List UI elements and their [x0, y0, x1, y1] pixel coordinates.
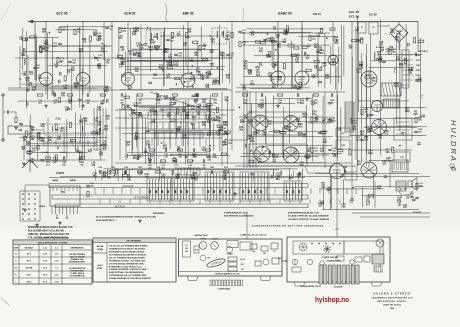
svg-text:100p: 100p [368, 153, 374, 155]
svg-text:25u: 25u [224, 100, 229, 102]
component row y95 cr - resistor R26 [277, 94, 282, 96]
svg-text:1M: 1M [55, 67, 58, 69]
svg-text:25u: 25u [312, 114, 317, 116]
wire right bus drop [417, 22, 419, 51]
svg-text:25u: 25u [126, 144, 131, 146]
speaker transformer hatched [396, 181, 406, 191]
svg-text:330: 330 [226, 78, 231, 80]
component row - resistor R7 [100, 94, 105, 96]
capacitor C3 [93, 33, 97, 35]
component scatter region 104 [122, 93, 230, 161]
svg-text:100p: 100p [249, 84, 255, 86]
table 2 HF trimming [93, 238, 176, 282]
svg-text:1,1V: 1,1V [54, 254, 59, 256]
svg-text:C75: C75 [397, 34, 400, 36]
resistor R3 [74, 29, 76, 34]
chassis A right column rect 3 [228, 267, 237, 271]
wire y150 right [352, 149, 412, 151]
svg-text:230V: 230V [416, 75, 421, 77]
svg-text:LIK-L27 TRIMMES MED SKALAVISER: LIK-L27 TRIMMES MED SKALAVISER [109, 256, 145, 259]
svg-text:68k: 68k [247, 139, 252, 141]
svg-text:AVSTEMMINGSSKIVE NR. 3013: AVSTEMMINGSSKIVE NR. 3013 [288, 211, 320, 214]
chassis A trimmer KOLM [211, 242, 219, 250]
wire left drop x24 [23, 135, 25, 160]
svg-text:25u: 25u [194, 55, 199, 57]
svg-text:110V: 110V [416, 55, 421, 57]
svg-text:1n5: 1n5 [107, 174, 112, 176]
component row y160 - resistor R20 [160, 160, 165, 162]
wire vertical x120 [119, 108, 121, 160]
svg-text:10n: 10n [377, 188, 382, 190]
svg-text:400 MA: 400 MA [97, 245, 104, 248]
svg-text:1n5: 1n5 [305, 158, 310, 160]
switch contact row B [148, 122, 210, 129]
long wire AGC y88 [8, 87, 112, 89]
svg-text:1M: 1M [121, 50, 124, 52]
svg-text:1M: 1M [217, 135, 220, 137]
svg-text:TRIMM: TRIMM [97, 249, 104, 251]
chassis A right column rect 1 [228, 257, 237, 261]
wire x352 to band [351, 160, 353, 204]
svg-text:10n: 10n [27, 153, 32, 155]
scan mark bottom-left [1, 298, 10, 306]
svg-text:OMR: OMR [14, 248, 19, 250]
svg-text:AVSLASRETNING ----: AVSLASRETNING ---- [96, 219, 117, 222]
svg-text:C47: C47 [263, 252, 266, 255]
svg-text:1M: 1M [403, 207, 406, 209]
svg-text:100p: 100p [225, 39, 231, 41]
component row y150 - resistor R18 [177, 149, 182, 151]
capacitor C12 [166, 38, 170, 40]
switch contact cluster C [205, 172, 234, 201]
arrows below switch [56, 214, 58, 219]
resistor R30 [389, 49, 391, 54]
chassis2 foot right [371, 282, 382, 286]
wire x352 long drop [351, 22, 353, 161]
resistor R1 [15, 117, 17, 122]
capacitor C23 [218, 128, 222, 130]
svg-text:4n7: 4n7 [28, 85, 33, 88]
transformer winding comb x345 [345, 102, 354, 132]
small box right mid [394, 152, 410, 162]
svg-text:1n5: 1n5 [259, 107, 264, 109]
component scatter region 108 [103, 169, 301, 179]
fuse box S1 [358, 22, 366, 33]
svg-text:PA MERKET 1600kHz. TILFORES 16: PA MERKET 1600kHz. TILFORES 1600 [109, 259, 146, 262]
ground G2 [27, 88, 29, 90]
component - capacitor C16 [156, 93, 158, 97]
chassis2 left rect [292, 267, 301, 272]
svg-text:BÅND: BÅND [115, 203, 126, 208]
chassis A scattered rect a [250, 244, 257, 249]
star tube V6 [372, 120, 387, 135]
wire ladder bottom bend [94, 149, 106, 151]
svg-text:MERKNAD:: MERKNAD: [153, 212, 165, 215]
wire x325 drop [324, 92, 326, 168]
wire bridge top [398, 22, 400, 25]
wire B+ bus top [28, 21, 418, 23]
small rect component [288, 44, 294, 47]
label scatter region 107 [348, 27, 418, 166]
component row y150 - capacitor C18 [164, 148, 166, 152]
wire long y176 middle [60, 176, 430, 178]
svg-text:2x5AT: 2x5AT [357, 38, 364, 41]
chassis2 top-right inner box [344, 241, 383, 254]
label scatter region 105 [242, 31, 339, 92]
chassis A top rect 1 [227, 241, 238, 248]
tube V4a EABC80 [271, 71, 285, 85]
band switch bus GRAM [49, 184, 308, 189]
resistor R28 [311, 117, 313, 122]
svg-text:4n7: 4n7 [305, 57, 310, 60]
label scatter region 102 [21, 116, 110, 167]
wire y163 horizontal [235, 165, 345, 167]
switch contact row A [148, 112, 210, 119]
svg-text:1M: 1M [171, 174, 174, 176]
svg-text:1n5: 1n5 [99, 155, 104, 157]
fuse box S2 [369, 22, 378, 34]
component right col - capacitor C36 [414, 130, 418, 132]
small box right of decoder 2 [336, 140, 350, 149]
chassis A small box FYD [194, 246, 199, 253]
tube V1b triode [77, 73, 90, 86]
svg-text:1M: 1M [146, 144, 149, 146]
svg-text:5p6: 5p6 [132, 34, 137, 36]
svg-text:OMRADE I MARKERTE GJELDER FOR: OMRADE I MARKERTE GJELDER FOR [28, 233, 70, 236]
svg-text:LIK-L26,L26,L26 TRIMMES MED SI: LIK-L26,L26,L26 TRIMMES MED SIGNAL- [109, 245, 149, 248]
svg-text:1M: 1M [406, 197, 409, 199]
wire EM84 drop [332, 22, 334, 56]
ground rotary switch [36, 223, 38, 225]
trimmer row in gang [47, 140, 49, 145]
svg-text:1,5V: 1,5V [43, 261, 48, 263]
svg-text:1n5: 1n5 [197, 75, 202, 77]
svg-text:47k: 47k [26, 143, 31, 146]
decoder box upper [248, 112, 306, 135]
band area tick row between bands 2-3 [99, 200, 101, 204]
svg-text:GRAM: GRAM [123, 184, 134, 188]
ground G9 [59, 221, 61, 223]
chassis2 mid-right circle [350, 260, 354, 264]
chassis2 small circle A [320, 261, 324, 265]
svg-text:SIGNALGENERATOR TILKOBLET DIRE: SIGNALGENERATOR TILKOBLET DIREKTE. [109, 277, 152, 280]
svg-text:245V: 245V [416, 79, 421, 82]
wire left section vertical x20 [19, 46, 21, 88]
svg-text:1M: 1M [193, 156, 196, 158]
svg-text:TEGN. NR. 5070-B: TEGN. NR. 5070-B [383, 304, 401, 306]
svg-text:25u: 25u [277, 47, 282, 49]
svg-text:1M: 1M [297, 102, 300, 104]
EM84 indicator tube [328, 55, 338, 65]
svg-text:KOBL.: KOBL. [97, 268, 103, 270]
svg-text:4 SKALALAMPER 0,3A 6V: 4 SKALALAMPER 0,3A 6V [300, 285, 322, 288]
svg-text:2x0000/00: 2x0000/00 [334, 287, 343, 289]
chassis2 plus marks [311, 243, 313, 245]
component row y95 cr - capacitor C28 [260, 93, 262, 97]
svg-text:220: 220 [196, 113, 201, 115]
svg-text:SKALA-BETEGNELSE / LYSNING: SKALA-BETEGNELSE / LYSNING [38, 242, 68, 245]
svg-text:OSRAM: OSRAM [226, 253, 233, 256]
svg-text:5p6: 5p6 [256, 69, 261, 71]
IF transformer T2 [212, 28, 227, 44]
AM input box [8, 126, 32, 134]
svg-text:5p6: 5p6 [138, 116, 143, 118]
svg-text:STEREO: STEREO [134, 196, 150, 200]
wire band horizontal y177 [49, 177, 305, 179]
ground G5 [23, 162, 25, 164]
chassis A top rect 2 [240, 242, 252, 250]
wire V4b anode [301, 22, 303, 71]
svg-text:SKALA-BELYSNINGSLAMPER: SKALA-BELYSNINGSLAMPER [37, 237, 69, 240]
band area tick row between bands 1-2 [94, 188, 96, 194]
svg-text:230 2: 230 2 [26, 282, 32, 284]
svg-text:ETTER MED C2 VED 600kHz OG L-: ETTER MED C2 VED 600kHz OG L- [109, 266, 142, 268]
capacitor C13 [174, 53, 178, 55]
svg-text:100p: 100p [228, 142, 233, 144]
label scatter region 108 [92, 171, 301, 182]
tuning gang dashed box [44, 138, 96, 146]
output stage box list [394, 118, 412, 140]
wire grid row [40, 45, 110, 47]
svg-text:10n: 10n [207, 159, 212, 161]
component scatter region 103 [117, 27, 223, 88]
chassis2 small circle B [307, 259, 312, 264]
svg-text:BOLGEOMRADER I STILLING MB.: BOLGEOMRADER I STILLING MB. [28, 230, 65, 233]
scan artifact cross right edge [420, 93, 423, 99]
svg-text:1M: 1M [119, 66, 122, 68]
wire vertical x138 [137, 115, 139, 160]
svg-text:FJERN: FJERN [56, 172, 64, 175]
svg-text:10n: 10n [356, 72, 361, 74]
component - resistor R14 [137, 94, 142, 96]
power transformer primary (hatched) [381, 83, 401, 96]
component - capacitor C17 [194, 93, 196, 97]
svg-text:5p6: 5p6 [138, 174, 143, 176]
svg-text:25u: 25u [378, 138, 383, 140]
small box right of decoder [336, 128, 350, 137]
wire x244 long drop [243, 33, 245, 168]
wire mesh region 101 [18, 25, 110, 111]
component row y158 - resistor R9 [79, 157, 84, 159]
component above bands - capacitor C39 [210, 170, 212, 174]
svg-text:1M: 1M [32, 151, 35, 153]
wire between star tubes [268, 122, 283, 124]
svg-text:1M: 1M [60, 131, 63, 133]
svg-text:1M: 1M [271, 41, 274, 43]
coil L4 row [42, 152, 44, 153]
chassis2 right tube rear [376, 239, 384, 247]
wire V4a anode [277, 22, 279, 71]
wire drop to chassis A [246, 212, 248, 239]
star tube V5c [254, 146, 270, 162]
svg-text:1n5: 1n5 [221, 55, 226, 57]
capacitor C14 [226, 53, 230, 55]
svg-text:TANDBERGS RADIOFABRIKK A/S: TANDBERGS RADIOFABRIKK A/S [371, 296, 413, 299]
svg-text:10n: 10n [202, 102, 207, 104]
component row y160 - capacitor C21 [174, 159, 176, 163]
chassis2 right column wire [379, 247, 381, 254]
svg-text:hylshop.no: hylshop.no [315, 297, 349, 304]
svg-text:68k: 68k [21, 55, 26, 57]
svg-text:FM: FM [56, 117, 61, 121]
ground G8 [277, 104, 279, 106]
svg-text:KOLM: KOLM [212, 239, 218, 241]
FM tuner dashed box L2 L3 [44, 124, 96, 135]
resistor R22 [225, 139, 227, 144]
svg-text:1n5: 1n5 [384, 134, 389, 136]
svg-text:2.3: 2.3 [55, 248, 58, 250]
IF transformer T1 [146, 30, 161, 46]
wire x356 long drop [355, 30, 357, 160]
chassis A foot right [260, 276, 271, 281]
svg-text:56k: 56k [268, 76, 273, 78]
switch contact cluster E [284, 181, 302, 201]
left switch assembly box [50, 186, 80, 206]
chassis A right column rect 2 [228, 262, 237, 266]
ground G12 [234, 192, 236, 194]
heater coil winding [374, 52, 375, 54]
chassis2 mid-right rect a [355, 257, 362, 262]
svg-text:1n5: 1n5 [40, 126, 45, 128]
chassis2 right transformer rear [372, 254, 384, 264]
svg-text:10n: 10n [408, 73, 413, 75]
wire x104 drop [103, 22, 105, 61]
component above bands right - capacitor C40 [343, 170, 345, 174]
svg-text:1,2V: 1,2V [54, 261, 59, 263]
wire down-left x25 [24, 185, 26, 206]
svg-text:ALLE KONDENSATORER ER TEGNET I: ALLE KONDENSATORER ER TEGNET I FRASLATT-… [96, 216, 157, 219]
svg-text:4 SKALALAMPER 6,3V 0,3A: 4 SKALALAMPER 6,3V 0,3A [214, 272, 240, 275]
bus arrowhead left [28, 20, 33, 23]
label scatter region 103 [118, 28, 230, 91]
svg-text:25u: 25u [371, 80, 376, 82]
capacitor C10 [98, 128, 100, 132]
component scatter region 101 [19, 32, 108, 110]
component row y150 - resistor R17 [149, 149, 154, 151]
svg-text:68k: 68k [262, 134, 267, 136]
wire x250 long drop [249, 92, 251, 168]
svg-text:5p6: 5p6 [325, 77, 330, 79]
svg-text:100p: 100p [386, 160, 392, 162]
switch contact cluster D [240, 172, 269, 201]
wire horizontal y118 [115, 117, 148, 119]
svg-text:4n7: 4n7 [88, 151, 93, 154]
chassis A connector comb [210, 280, 243, 286]
svg-text:5p6: 5p6 [175, 65, 180, 67]
component row - resistor R6 [67, 94, 72, 96]
svg-text:C2-7: C2-7 [241, 264, 245, 266]
resistor R10 [119, 27, 121, 32]
svg-text:AKKAR 7600: AKKAR 7600 [194, 234, 208, 237]
svg-text:1n5: 1n5 [207, 135, 212, 137]
svg-text:ANTENNE TIL ANT.KONTAKT. AVLES: ANTENNE TIL ANT.KONTAKT. AVLES [109, 251, 145, 254]
transformer secondary hatch [383, 99, 385, 108]
component scatter region 106 [239, 97, 343, 162]
chassis A scattered rect c [271, 243, 278, 249]
component row above bands - capacitor C38 [124, 170, 126, 174]
long diagonal wire [150, 92, 215, 113]
chassis 2 outline [287, 237, 390, 282]
svg-text:1M: 1M [365, 111, 368, 113]
ground G10 [24, 208, 26, 210]
svg-text:HF TRIMMING: HF TRIMMING [127, 241, 142, 243]
svg-text:5p6: 5p6 [413, 114, 418, 116]
component scatter region 109 [322, 175, 416, 201]
capacitor C25 [238, 30, 242, 32]
switch contact cluster B [172, 178, 194, 201]
component col below OT - capacitor C45 [415, 196, 419, 198]
component - resistor R16 [212, 94, 217, 96]
chassis A scattered rect e [272, 258, 279, 264]
wire V1b anode [82, 22, 84, 73]
svg-text:M: M [57, 146, 60, 150]
svg-text:TONEHJERNE NR. 3033: TONEHJERNE NR. 3033 [224, 212, 248, 214]
resistor R24 [309, 35, 311, 40]
svg-text:PA UTGANGSVOLTMETER TILKOBLET: PA UTGANGSVOLTMETER TILKOBLET [109, 253, 147, 256]
svg-text:ECC 85: ECC 85 [56, 12, 67, 16]
tube V7 EZ80 rectifier [361, 71, 377, 87]
wire bus segment second [34, 22, 36, 81]
component row - capacitor C9 [86, 93, 88, 97]
band switch bus STEREO [52, 195, 308, 200]
wire mesh region 102 [20, 113, 108, 161]
chassis2 left knob [292, 259, 298, 265]
chassis2 arrow left [281, 260, 287, 262]
chassis2 top-left inner box [293, 241, 344, 254]
capacitor C88 top right of section [105, 26, 109, 28]
wire long y163 [115, 162, 352, 164]
resistor R29 [311, 147, 313, 152]
capacitor C24 [213, 118, 217, 120]
mains voltage labels [409, 54, 413, 56]
capacitor C27 [316, 50, 320, 52]
component row y160 - resistor R21 [187, 160, 192, 162]
svg-text:5p6: 5p6 [357, 164, 362, 166]
chassis2 small rect mid [336, 256, 344, 261]
capacitor C26 near DANKE label [263, 38, 267, 40]
label scatter region 106 [239, 101, 337, 168]
wire mesh region 109 [315, 173, 423, 210]
svg-text:220: 220 [97, 125, 102, 127]
svg-text:220: 220 [240, 122, 245, 124]
svg-text:25u: 25u [300, 103, 305, 105]
wire speaker line 2 [360, 216, 430, 218]
chassis2 mid-right rect b [364, 256, 370, 262]
svg-text:25u: 25u [150, 43, 155, 45]
chassis2 fan symbol [299, 243, 307, 251]
wire horizontal y140 span [230, 139, 248, 141]
wire drop x247 [246, 90, 248, 168]
wire mesh region 107 [350, 16, 427, 166]
svg-text:OVERENSKOMST.: OVERENSKOMST. [69, 262, 86, 264]
svg-text:100p: 100p [213, 102, 218, 104]
svg-text:47k: 47k [97, 108, 102, 111]
svg-text:ECL 86: ECL 86 [349, 15, 359, 19]
wire mesh region 108 [96, 168, 303, 181]
svg-text:C-M/B LM L27 L27 L26 C2: C-M/B LM L27 L27 L26 C2 [240, 235, 267, 237]
tube V6a small [372, 101, 383, 112]
svg-text:220V: 220V [416, 70, 421, 72]
chassis2 right small block [374, 266, 382, 272]
capacitor C34 electrolytic [382, 60, 386, 62]
wire drops from contact rows [151, 138, 153, 146]
chassis A circle mid-left [200, 255, 206, 261]
chassis2 starburst [323, 245, 331, 253]
svg-text:47k: 47k [205, 86, 210, 89]
wire tube cathode drops [45, 86, 47, 96]
svg-text:5p6: 5p6 [172, 160, 177, 162]
component under V2 - capacitor C15 [120, 93, 122, 97]
